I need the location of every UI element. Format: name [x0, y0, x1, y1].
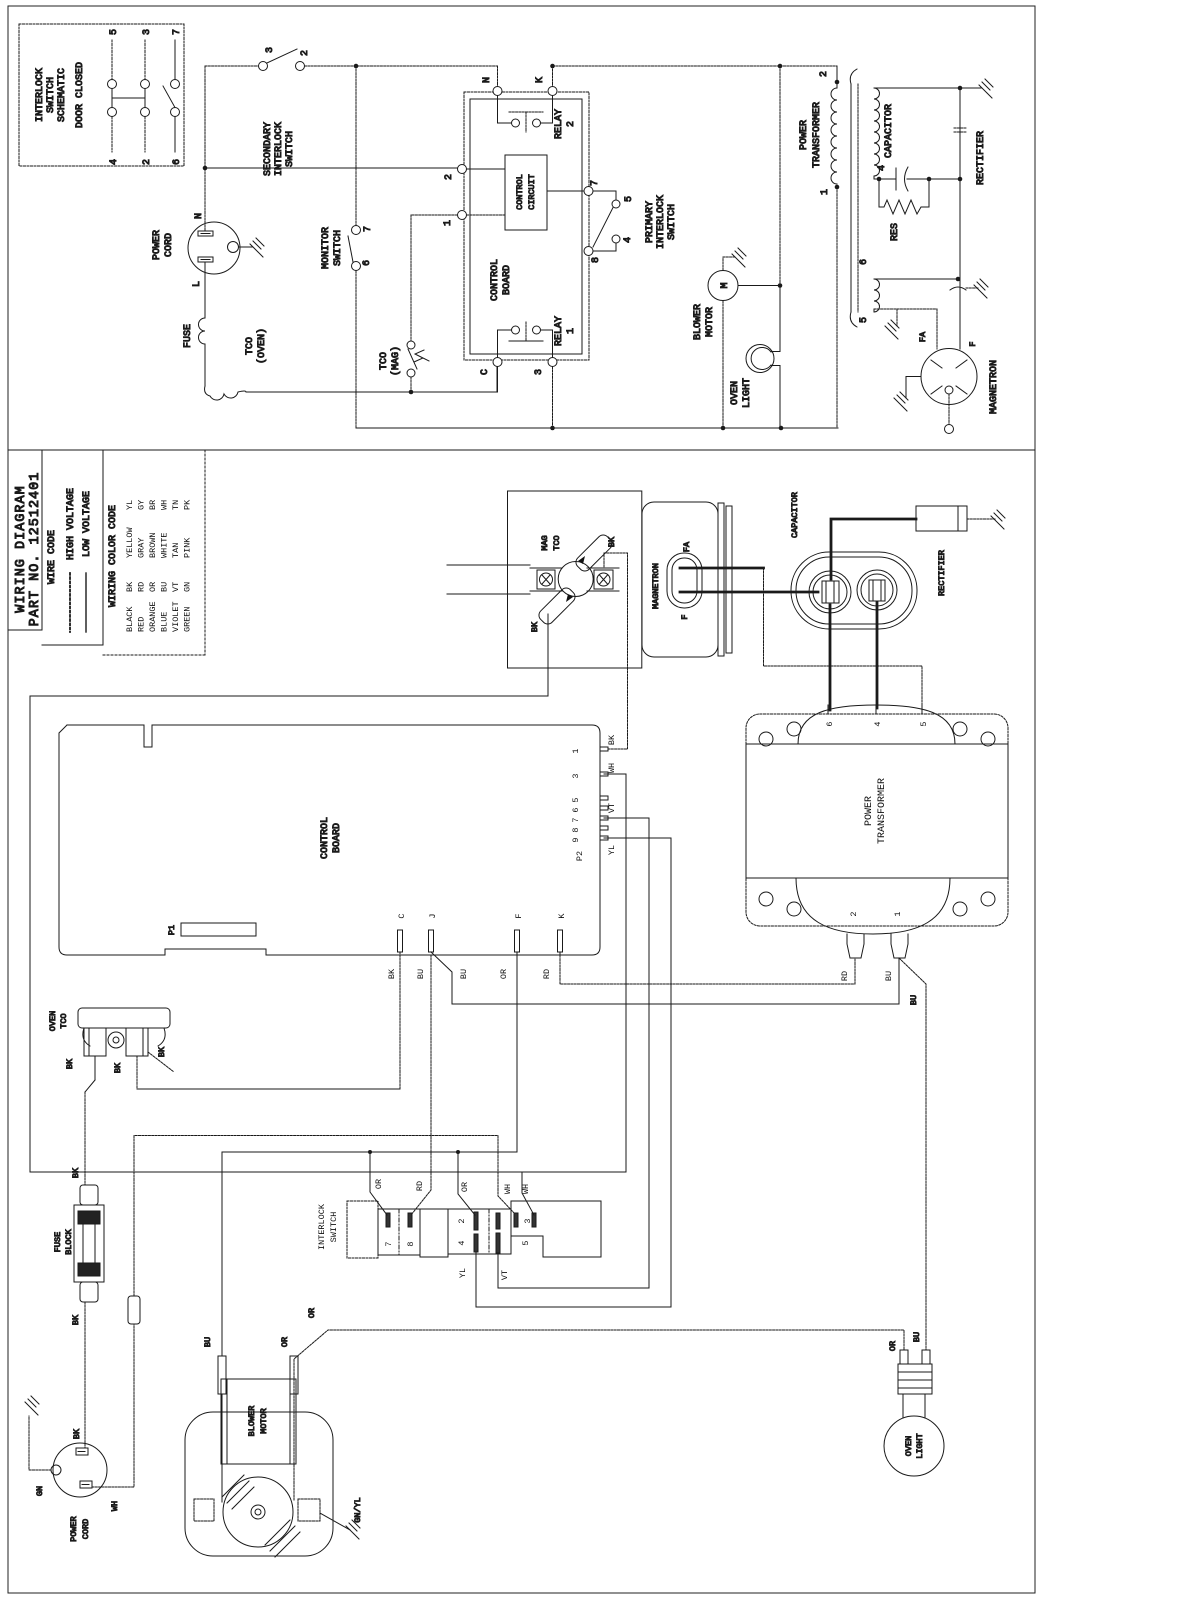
wire YL board pin9 to interlock — [476, 838, 671, 1307]
wire board 3 down to rail B — [552, 367, 554, 429]
capacitor pictorial — [791, 552, 917, 629]
svg-text:6: 6 — [571, 807, 581, 812]
ground at power cord (schematic) — [250, 238, 264, 257]
svg-text:SWITCH: SWITCH — [46, 77, 57, 113]
svg-text:RD: RD — [415, 1181, 425, 1191]
svg-text:PINK: PINK — [183, 537, 193, 558]
svg-text:5: 5 — [919, 721, 929, 726]
board terminal 1 — [458, 211, 467, 220]
TCO (OVEN) thermal cutout (schematic) — [205, 386, 246, 400]
svg-text:RES: RES — [890, 223, 901, 241]
oven light (schematic) — [746, 345, 774, 373]
power cord (schematic) — [188, 222, 240, 274]
power cord pictorial (wiring) — [53, 1443, 107, 1497]
svg-text:TCO: TCO — [552, 535, 562, 550]
svg-text:CIRCUIT: CIRCUIT — [527, 174, 537, 210]
svg-text:2: 2 — [566, 121, 577, 127]
svg-text:OR: OR — [460, 1182, 470, 1192]
title block cell 3: WIRING COLOR CODE — [204, 450, 206, 655]
svg-text:INTERLOCK: INTERLOCK — [274, 122, 285, 176]
svg-text:CONTROL: CONTROL — [515, 174, 525, 210]
svg-text:INTERLOCK: INTERLOCK — [317, 1203, 327, 1250]
svg-text:6: 6 — [859, 259, 870, 265]
svg-text:TCO: TCO — [59, 1013, 69, 1028]
svg-text:N: N — [194, 213, 205, 219]
wire HV capacitor to transformer pins (thick) — [829, 605, 832, 710]
svg-text:RECTIFIER: RECTIFIER — [976, 131, 987, 185]
svg-text:SWITCH: SWITCH — [329, 1212, 339, 1243]
wire K feed down right side — [779, 66, 781, 286]
connector P2 pins — [600, 747, 608, 840]
svg-text:RELAY: RELAY — [554, 109, 565, 139]
svg-text:BU: BU — [203, 1337, 213, 1347]
svg-text:6: 6 — [825, 721, 835, 726]
svg-text:M: M — [720, 282, 731, 288]
transformer core — [850, 69, 857, 327]
svg-text:WH: WH — [110, 1501, 120, 1511]
wire board C down to rail A — [497, 367, 499, 393]
wire WH splice to interlock — [134, 1136, 516, 1297]
svg-text:4: 4 — [623, 237, 634, 243]
svg-text:RED: RED — [137, 617, 147, 632]
wire GN/YL blower to ground — [320, 1513, 350, 1530]
primary interlock switch (schematic) — [584, 187, 593, 196]
wire rail to board terminal 2 — [205, 167, 457, 169]
wire BK oven TCO to fuse block — [94, 1056, 96, 1080]
svg-text:FUSE: FUSE — [53, 1232, 63, 1252]
svg-text:7: 7 — [384, 1241, 394, 1246]
svg-text:1: 1 — [820, 189, 831, 195]
magnetron pictorial — [642, 502, 718, 657]
fuse (schematic) — [199, 318, 205, 344]
svg-text:ORANGE: ORANGE — [148, 601, 158, 632]
svg-text:TCO: TCO — [245, 337, 256, 355]
svg-text:6: 6 — [172, 159, 183, 165]
svg-text:POWER: POWER — [864, 796, 875, 826]
board terminal 2 — [458, 165, 467, 174]
svg-text:OR: OR — [280, 1337, 290, 1347]
inset switch 2-3 (closed) — [144, 40, 146, 79]
wire terminal 2 to control circuit — [467, 168, 506, 170]
title block cell 2: WIRE CODE legend — [102, 450, 104, 645]
svg-text:2: 2 — [444, 174, 455, 180]
wire top rail left (N side) — [205, 65, 259, 67]
svg-text:9: 9 — [571, 837, 581, 842]
svg-text:VT: VT — [607, 803, 617, 813]
control board outline (wiring) — [59, 725, 600, 955]
svg-text:DOOR CLOSED: DOOR CLOSED — [75, 62, 86, 128]
svg-text:1: 1 — [566, 328, 577, 334]
wire rail B (return) — [356, 427, 838, 429]
wire HV capacitor to rectifier (thick) — [831, 519, 916, 579]
svg-text:SCHEMATIC: SCHEMATIC — [57, 68, 68, 122]
interlock switch pictorial — [347, 1201, 378, 1258]
interlock switch schematic inset box — [19, 24, 184, 166]
svg-text:1: 1 — [443, 220, 454, 226]
svg-text:BU: BU — [459, 969, 469, 979]
svg-text:OVEN: OVEN — [48, 1011, 58, 1031]
svg-text:N: N — [482, 77, 493, 83]
board bottom pins C J F K — [398, 930, 403, 952]
svg-text:K: K — [535, 77, 546, 83]
svg-text:MOTOR: MOTOR — [259, 1408, 269, 1434]
svg-text:FA: FA — [682, 541, 692, 552]
blower motor M (schematic) — [708, 271, 738, 301]
svg-text:5: 5 — [859, 317, 870, 323]
svg-text:POWER: POWER — [152, 230, 163, 260]
svg-text:C: C — [397, 913, 407, 918]
wire terminal 1 to control circuit — [467, 214, 506, 216]
board terminal C — [493, 358, 502, 367]
svg-text:PK: PK — [183, 499, 193, 510]
svg-text:LIGHT: LIGHT — [742, 378, 753, 408]
svg-text:5: 5 — [624, 196, 635, 202]
svg-text:OVEN: OVEN — [730, 381, 741, 405]
svg-text:BK: BK — [125, 581, 135, 592]
svg-text:INTERLOCK: INTERLOCK — [35, 68, 46, 122]
svg-text:BK: BK — [157, 1046, 167, 1057]
svg-text:PRIMARY: PRIMARY — [645, 201, 656, 243]
ground at HV rail top (schematic) — [960, 87, 981, 89]
wire rail A to board C — [246, 391, 497, 393]
wire WH power cord to splice — [92, 1324, 134, 1487]
svg-text:GY: GY — [137, 500, 147, 510]
svg-text:5: 5 — [571, 797, 581, 802]
svg-text:PART NO. 12512401: PART NO. 12512401 — [28, 472, 43, 627]
svg-text:1: 1 — [571, 748, 581, 753]
svg-text:FA: FA — [918, 331, 928, 342]
svg-text:WIRING DIAGRAM: WIRING DIAGRAM — [14, 485, 29, 612]
svg-text:SWITCH: SWITCH — [285, 131, 296, 167]
svg-text:OR: OR — [499, 969, 509, 979]
wire VT board pin7 to interlock — [498, 818, 649, 1288]
wire OR oven light to blower — [294, 1330, 904, 1500]
svg-text:YL: YL — [125, 500, 135, 510]
MAG TCO pictorial — [508, 491, 642, 668]
svg-text:WIRE CODE: WIRE CODE — [47, 530, 58, 584]
wire transformer 1 to rail B — [836, 187, 838, 428]
svg-text:RD: RD — [840, 971, 850, 981]
splice — [128, 1296, 140, 1324]
svg-text:3: 3 — [265, 47, 276, 53]
wire GN to chassis ground — [29, 1416, 51, 1470]
svg-text:BK: BK — [607, 536, 617, 547]
svg-text:F: F — [514, 913, 524, 918]
svg-text:POWER: POWER — [799, 120, 810, 150]
svg-text:OVEN: OVEN — [904, 1436, 914, 1456]
svg-text:MONITOR: MONITOR — [321, 227, 332, 269]
wire filament 6 to HV rail — [874, 278, 958, 280]
wire HV magnetron to capacitor (thick) — [680, 567, 764, 570]
ground at blower motor (schematic) — [732, 248, 746, 267]
svg-text:MAG: MAG — [540, 535, 550, 550]
svg-text:L: L — [192, 281, 203, 287]
high voltage sample wire — [69, 573, 71, 632]
TCO (MAG) thermal cutout (schematic) — [411, 214, 457, 216]
svg-text:MAGNETRON: MAGNETRON — [651, 563, 661, 609]
svg-text:BLOWER: BLOWER — [247, 1406, 257, 1437]
svg-text:6: 6 — [362, 260, 373, 266]
low voltage sample wire — [85, 573, 87, 632]
svg-text:RD: RD — [137, 582, 147, 592]
svg-text:3: 3 — [571, 773, 581, 778]
svg-text:RD: RD — [542, 969, 552, 979]
svg-text:LOW VOLTAGE: LOW VOLTAGE — [82, 491, 93, 557]
ground at magnetron (schematic) — [906, 376, 921, 378]
svg-text:TRANSFORMER: TRANSFORMER — [877, 778, 888, 844]
board terminal N — [493, 87, 502, 96]
svg-text:SECONDARY: SECONDARY — [263, 122, 274, 176]
wire BU board J to transformer 1 — [431, 952, 899, 1004]
svg-text:WH: WH — [503, 1184, 513, 1194]
svg-text:2: 2 — [849, 911, 859, 916]
svg-text:BK: BK — [71, 1314, 81, 1325]
svg-text:P1: P1 — [167, 925, 177, 935]
wire BK board pin1 to MAG TCO — [604, 553, 628, 749]
wire BK oven TCO to board pin C — [136, 1056, 138, 1089]
mechanical link bar between inset switches — [112, 97, 145, 99]
svg-text:BU: BU — [416, 969, 426, 979]
rectifier mark — [954, 128, 966, 132]
secondary interlock switch (schematic) — [259, 62, 268, 71]
capacitor (schematic) — [874, 178, 896, 180]
svg-text:BROWN: BROWN — [148, 532, 158, 558]
wire BU transformer to oven light — [899, 958, 926, 1350]
svg-text:SWITCH: SWITCH — [667, 204, 678, 240]
svg-text:F: F — [968, 341, 978, 346]
svg-text:BLOWER: BLOWER — [693, 304, 704, 340]
control circuit block (schematic) — [505, 155, 547, 230]
svg-text:BK: BK — [387, 968, 397, 979]
svg-text:CORD: CORD — [81, 1519, 91, 1539]
transformer HV secondary winding — [874, 88, 880, 176]
inset switch 4-5 (closed) — [111, 40, 113, 79]
svg-text:OR: OR — [888, 1341, 898, 1351]
svg-text:2: 2 — [142, 159, 153, 165]
svg-text:RECTIFIER: RECTIFIER — [937, 550, 947, 596]
wire control circuit to primary interlock — [547, 190, 584, 192]
svg-text:FUSE: FUSE — [183, 324, 194, 348]
svg-text:BK: BK — [530, 621, 540, 632]
wire N up from power cord — [204, 66, 206, 230]
HV rail with rectifier (schematic) — [959, 88, 961, 349]
svg-text:BLUE: BLUE — [160, 612, 170, 632]
inset switch 6-7 (open) — [174, 40, 176, 79]
svg-text:MAGNETRON: MAGNETRON — [989, 360, 1000, 414]
svg-text:C: C — [480, 369, 491, 375]
svg-text:WH: WH — [160, 500, 170, 510]
svg-text:YL: YL — [458, 1268, 468, 1278]
wire OR board F to interlock and blower — [222, 952, 517, 1356]
svg-text:YL: YL — [607, 845, 617, 855]
board terminal K — [548, 87, 557, 96]
section divider line — [8, 449, 1035, 451]
svg-text:BK: BK — [71, 1167, 81, 1178]
svg-text:BU: BU — [909, 995, 919, 1005]
svg-text:MOTOR: MOTOR — [705, 307, 716, 337]
board terminal 3 — [548, 358, 557, 367]
svg-text:BLOCK: BLOCK — [64, 1228, 74, 1254]
svg-text:GN: GN — [183, 582, 193, 592]
svg-text:3: 3 — [534, 369, 545, 375]
svg-text:HIGH VOLTAGE: HIGH VOLTAGE — [66, 488, 77, 560]
svg-text:POWER: POWER — [69, 1516, 79, 1542]
resistor RES (schematic) — [877, 177, 882, 182]
svg-text:YELLOW: YELLOW — [125, 526, 135, 558]
svg-text:BOARD: BOARD — [502, 265, 513, 295]
oven light pictorial — [884, 1416, 944, 1476]
svg-text:WHITE: WHITE — [160, 532, 170, 558]
svg-text:VT: VT — [171, 582, 181, 592]
wire RD board K to transformer 2 — [560, 952, 855, 984]
svg-text:BK: BK — [65, 1058, 75, 1069]
svg-text:(OVEN): (OVEN) — [256, 328, 268, 364]
svg-text:F: F — [680, 614, 690, 619]
svg-text:BU: BU — [912, 1332, 922, 1342]
wire RD board J to interlock 8 — [411, 955, 431, 1215]
svg-text:2: 2 — [457, 1218, 467, 1223]
svg-text:P2: P2 — [575, 851, 585, 861]
svg-text:GREEN: GREEN — [183, 606, 193, 632]
svg-text:VIOLET: VIOLET — [171, 601, 181, 632]
svg-text:8: 8 — [591, 257, 602, 263]
svg-text:4: 4 — [457, 1240, 467, 1245]
svg-text:BK: BK — [72, 1428, 82, 1439]
svg-text:J: J — [428, 913, 438, 918]
title block cell 1: WIRING DIAGRAM — [41, 450, 43, 630]
svg-text:CORD: CORD — [164, 233, 175, 257]
svg-text:VT: VT — [500, 1270, 510, 1280]
svg-text:(MAG): (MAG) — [390, 346, 402, 376]
connector P1 — [181, 923, 256, 936]
svg-text:TAN: TAN — [171, 543, 181, 558]
svg-text:2: 2 — [300, 50, 311, 56]
svg-text:7: 7 — [363, 226, 374, 232]
svg-text:3: 3 — [142, 29, 153, 35]
svg-text:INTERLOCK: INTERLOCK — [656, 195, 667, 249]
svg-text:BOARD: BOARD — [332, 823, 343, 853]
svg-text:BK: BK — [607, 734, 617, 745]
svg-text:BU: BU — [160, 582, 170, 592]
svg-text:2: 2 — [819, 71, 830, 77]
oven TCO pictorial — [78, 1008, 170, 1028]
svg-text:OR: OR — [307, 1308, 317, 1318]
transformer primary winding — [831, 88, 837, 184]
wire top rail right (K side) — [553, 65, 838, 67]
wire L down from power cord — [204, 262, 206, 318]
svg-text:BK: BK — [113, 1062, 123, 1073]
svg-text:5: 5 — [521, 1240, 531, 1245]
svg-text:K: K — [557, 913, 567, 919]
svg-text:TRANSFORMER: TRANSFORMER — [812, 102, 823, 168]
svg-text:4: 4 — [877, 165, 888, 171]
control board (schematic) — [464, 92, 589, 360]
chassis ground FA (schematic) — [896, 309, 898, 326]
svg-text:3: 3 — [523, 1218, 533, 1223]
svg-text:4: 4 — [873, 721, 883, 726]
svg-text:BLACK: BLACK — [125, 606, 135, 632]
svg-text:CAPACITOR: CAPACITOR — [790, 492, 800, 538]
power transformer pictorial — [746, 714, 1008, 926]
monitor switch (schematic) — [355, 66, 357, 226]
svg-text:1: 1 — [893, 911, 903, 916]
svg-text:5: 5 — [109, 29, 120, 35]
svg-text:TCO: TCO — [379, 352, 390, 370]
ground near filament junction (schematic) — [950, 287, 966, 290]
svg-text:7: 7 — [571, 817, 581, 822]
svg-text:8: 8 — [571, 827, 581, 832]
svg-text:RELAY: RELAY — [554, 316, 565, 346]
svg-text:GRAY: GRAY — [137, 538, 147, 558]
svg-text:WIRING COLOR CODE: WIRING COLOR CODE — [108, 505, 119, 607]
svg-text:CONTROL: CONTROL — [320, 817, 331, 859]
wire loop MAG TCO / WH pin3 — [30, 614, 626, 1172]
svg-text:SWITCH: SWITCH — [333, 230, 344, 266]
transformer filament winding — [874, 279, 880, 312]
magnetron (schematic) — [921, 349, 977, 405]
svg-text:BR: BR — [148, 500, 158, 510]
svg-text:CAPACITOR: CAPACITOR — [884, 104, 895, 158]
svg-text:WH: WH — [607, 763, 617, 773]
svg-text:7: 7 — [590, 180, 601, 186]
svg-text:TN: TN — [171, 500, 181, 510]
svg-text:4: 4 — [109, 159, 120, 165]
blower motor pictorial — [185, 1412, 333, 1556]
svg-text:OR: OR — [374, 1179, 384, 1189]
wire filament 5 to magnetron — [873, 309, 875, 312]
svg-text:LIGHT: LIGHT — [915, 1433, 925, 1459]
relay 1 (schematic) — [497, 330, 499, 358]
relay 2 (schematic) — [497, 96, 499, 124]
svg-text:CONTROL: CONTROL — [490, 259, 501, 301]
svg-text:8: 8 — [406, 1241, 416, 1246]
wire BK fuse block to power cord — [84, 1302, 86, 1448]
svg-text:GN/YL: GN/YL — [353, 1497, 363, 1523]
svg-text:GN: GN — [35, 1486, 45, 1496]
rectifier pictorial — [916, 506, 967, 531]
fuse block pictorial — [80, 1185, 98, 1205]
svg-text:7: 7 — [172, 29, 183, 35]
svg-text:OR: OR — [148, 582, 158, 592]
svg-text:BU: BU — [884, 971, 894, 981]
